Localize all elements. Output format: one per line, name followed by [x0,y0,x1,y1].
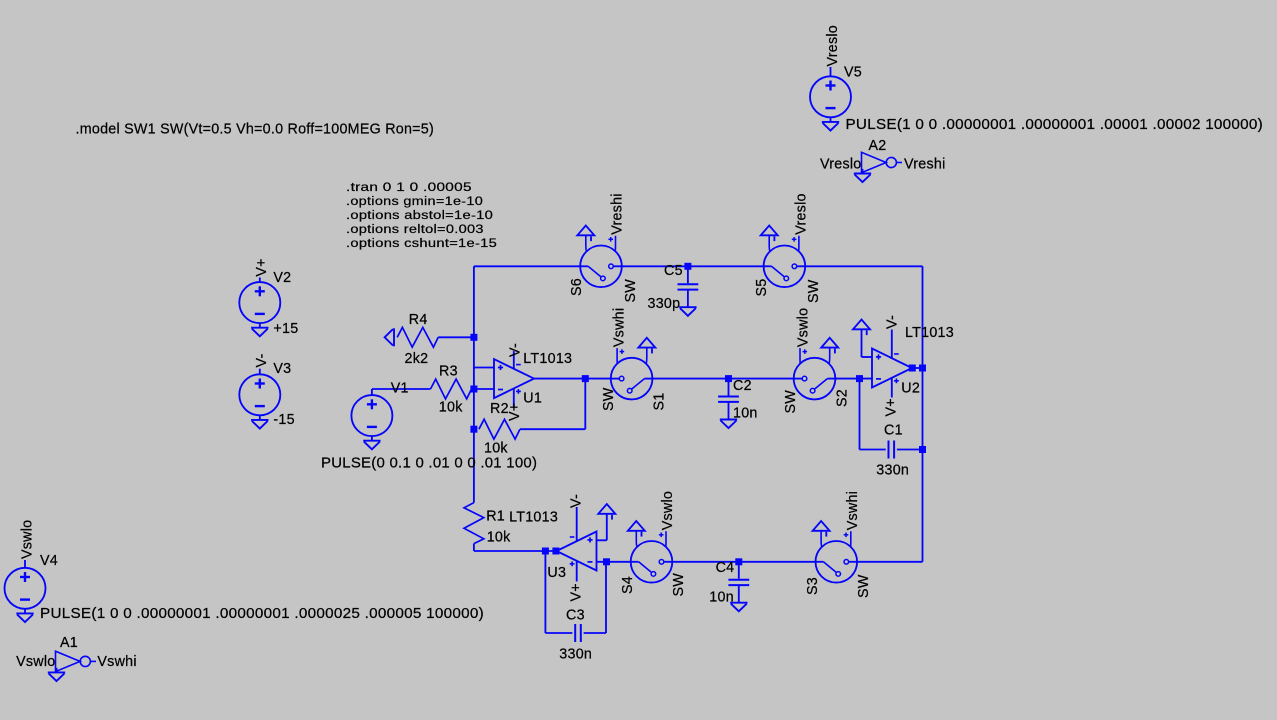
svg-text:.model SW1 SW(Vt=0.5 Vh=0.0 Ro: .model SW1 SW(Vt=0.5 Vh=0.0 Roff=100MEG … [76,121,435,138]
svg-text:S4: S4 [620,576,636,594]
svg-text:C2: C2 [733,378,752,394]
svg-text:SW: SW [783,390,799,414]
svg-text:C4: C4 [716,560,735,576]
svg-text:U2: U2 [901,381,920,397]
svg-text:SW: SW [623,279,639,303]
svg-text:PULSE(1 0 0 .00000001 .0000000: PULSE(1 0 0 .00000001 .00000001 .00001 .… [846,117,1264,133]
svg-text:R4: R4 [409,312,428,328]
svg-text:330p: 330p [648,296,681,312]
svg-text:.options cshunt=1e-15: .options cshunt=1e-15 [346,236,497,250]
svg-text:Vreslo: Vreslo [820,157,862,173]
svg-text:10n: 10n [733,406,758,422]
svg-text:10k: 10k [439,400,463,416]
svg-text:V-: V- [569,494,585,508]
svg-text:.tran 0 1 0 .00005: .tran 0 1 0 .00005 [346,180,472,194]
svg-text:U3: U3 [547,565,566,581]
svg-text:V2: V2 [273,270,291,286]
svg-text:R1: R1 [486,509,505,525]
svg-text:SW: SW [601,387,617,411]
svg-text:S1: S1 [652,393,668,411]
svg-text:Vswhi: Vswhi [612,308,628,347]
svg-text:V1: V1 [391,381,409,397]
svg-text:Vswlo: Vswlo [796,308,812,347]
svg-text:A1: A1 [60,635,78,651]
svg-text:.options abstol=1e-10: .options abstol=1e-10 [346,208,493,222]
svg-text:V+: V+ [884,398,900,416]
svg-text:V+: V+ [569,583,585,601]
svg-text:PULSE(0 0.1 0 .01 0 0 .01 100): PULSE(0 0.1 0 .01 0 0 .01 100) [321,455,537,471]
svg-text:-15: -15 [273,412,294,428]
svg-text:R3: R3 [439,364,458,380]
svg-text:10k: 10k [487,530,511,546]
svg-text:SW: SW [806,279,822,303]
svg-text:.options gmin=1e-10: .options gmin=1e-10 [346,194,483,208]
svg-text:V5: V5 [844,65,862,81]
svg-text:S6: S6 [569,278,585,296]
svg-text:U1: U1 [523,391,542,407]
svg-text:10n: 10n [709,590,734,606]
svg-text:PULSE(1 0 0 .00000001 .0000000: PULSE(1 0 0 .00000001 .00000001 .0000025… [40,606,484,622]
svg-text:10k: 10k [484,441,508,457]
svg-text:R2: R2 [490,401,509,417]
svg-text:V-: V- [507,343,523,357]
svg-text:V-: V- [254,353,270,367]
svg-text:330n: 330n [876,463,909,479]
svg-text:SW: SW [671,573,687,597]
svg-text:2k2: 2k2 [405,351,429,367]
svg-text:V4: V4 [40,553,58,569]
svg-text:Vswlo: Vswlo [660,491,676,530]
svg-text:V+: V+ [507,403,523,421]
svg-text:LT1013: LT1013 [509,510,558,526]
svg-text:V+: V+ [254,258,270,276]
svg-text:Vswlo: Vswlo [19,520,35,559]
svg-text:Vswhi: Vswhi [845,491,861,530]
svg-text:S2: S2 [835,389,851,407]
svg-text:V3: V3 [273,361,291,377]
svg-text:SW: SW [856,574,872,598]
svg-text:LT1013: LT1013 [523,351,572,367]
svg-text:V-: V- [885,315,901,329]
svg-text:S3: S3 [805,577,821,595]
svg-text:C1: C1 [884,423,903,439]
svg-text:330n: 330n [559,647,592,663]
svg-text:Vreshi: Vreshi [904,157,946,173]
svg-text:Vswhi: Vswhi [97,654,136,670]
svg-text:LT1013: LT1013 [905,325,954,341]
svg-text:Vreshi: Vreshi [609,193,625,235]
svg-text:+15: +15 [273,321,298,337]
svg-text:.options reltol=0.003: .options reltol=0.003 [346,222,484,236]
svg-text:C3: C3 [566,608,585,624]
svg-text:S5: S5 [754,279,770,297]
svg-text:Vreslo: Vreslo [825,25,841,67]
svg-text:Vreslo: Vreslo [794,193,810,235]
svg-text:A2: A2 [869,138,887,154]
svg-text:C5: C5 [664,263,683,279]
svg-text:Vswlo: Vswlo [16,654,55,670]
